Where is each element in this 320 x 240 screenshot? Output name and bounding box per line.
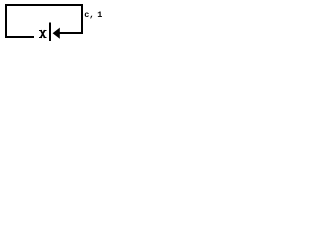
svg-text:1: 1: [97, 10, 102, 20]
svg-text:c,: c,: [84, 10, 94, 20]
